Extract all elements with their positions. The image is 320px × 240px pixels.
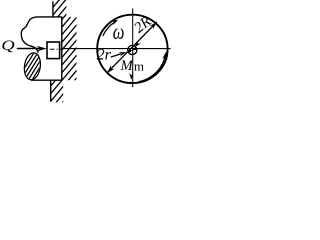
svg-text:m: m xyxy=(134,59,144,74)
svg-text:M: M xyxy=(120,58,134,74)
svg-text:Q: Q xyxy=(1,36,14,53)
svg-text:ω: ω xyxy=(113,20,125,45)
svg-text:2r: 2r xyxy=(97,47,112,64)
